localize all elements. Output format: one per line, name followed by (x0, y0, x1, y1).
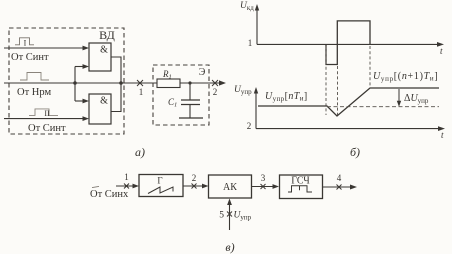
dashed box ВД (pulse discriminator block a) (9, 28, 124, 134)
pulse symbol Нрм (20, 73, 49, 81)
svg-text:1: 1 (139, 87, 144, 97)
svg-text:в): в) (225, 240, 234, 254)
axis X t (plot b top) (248, 38, 444, 56)
svg-text:АК: АК (223, 182, 237, 193)
junction gate outputs (119, 81, 123, 85)
svg-text:2: 2 (213, 87, 218, 97)
svg-text:От Нрм: От Нрм (17, 87, 51, 98)
axis Y U_upr (plot b bottom) (234, 85, 258, 129)
svg-text:2: 2 (247, 121, 252, 131)
waveform U_kd (326, 21, 370, 65)
capacitor C1 (181, 100, 200, 118)
axis Y U_kd (plot b top) (240, 1, 259, 44)
node 1 (137, 80, 143, 97)
svg-text:Uупр[nTи]: Uупр[nTи] (265, 91, 308, 103)
AND gate 1 (&) (89, 43, 111, 71)
svg-text:R1: R1 (162, 69, 172, 81)
wire 5 control input (219, 199, 232, 231)
svg-text:ГСЧ: ГСЧ (291, 176, 310, 187)
dashed level line (327, 106, 439, 108)
wire branch vertical (74, 67, 76, 102)
waveform U_upr (258, 88, 439, 116)
svg-text:Г: Г (157, 176, 162, 186)
pulse symbol II (29, 109, 58, 118)
svg-text:3: 3 (261, 173, 266, 183)
svg-text:II: II (44, 109, 50, 118)
node 2 with output arrow (212, 80, 226, 97)
wire input 1 (116, 172, 139, 189)
svg-text:б): б) (350, 145, 360, 159)
block Г (sawtooth generator) (139, 175, 183, 197)
wire branch to gate2 upper input (75, 99, 89, 104)
svg-text:t: t (440, 46, 443, 56)
junction on Нрм wire (73, 81, 77, 85)
delta U arrow (397, 89, 401, 107)
ground bar (179, 117, 203, 119)
wire input Нрм (middle) (4, 82, 218, 84)
svg-text:1: 1 (248, 38, 253, 48)
svg-text:Uупр: Uупр (234, 85, 252, 96)
wire input I (top) (4, 46, 89, 51)
dashed projection line x=370 (369, 46, 371, 87)
svg-text:Э: Э (199, 67, 206, 78)
svg-text:От Синт: От Синт (11, 52, 49, 63)
wire to capacitor (189, 83, 191, 100)
axis X t (plot b bottom) (247, 121, 445, 140)
svg-text:От Синт: От Синт (28, 123, 66, 134)
svg-text:ВД: ВД (99, 28, 115, 42)
svg-text:5: 5 (219, 211, 224, 221)
block ГСЧ (pulse generator) (280, 175, 323, 199)
junction after R1 (188, 81, 191, 84)
AND gate 2 (&) (89, 94, 111, 124)
wire 2 (183, 173, 209, 189)
wire branch to gate1 lower input (75, 64, 89, 69)
wire 4 output (323, 173, 358, 190)
dashed projection line x=337.5 (337, 66, 339, 115)
svg-text:C1: C1 (168, 97, 177, 109)
wire 3 (252, 173, 280, 189)
svg-text:1: 1 (124, 172, 129, 182)
wire input II (bottom) (4, 116, 89, 121)
svg-text:Uупр[(n+1)Tи]: Uупр[(n+1)Tи] (373, 71, 438, 83)
svg-text:2: 2 (192, 173, 197, 183)
svg-text:I: I (24, 38, 27, 47)
svg-text:&: & (100, 45, 108, 56)
svg-text:Uкд: Uкд (240, 1, 254, 12)
dashed projection line x=326 (325, 46, 327, 115)
svg-text:От Синх: От Синх (90, 189, 129, 200)
svg-text:&: & (100, 96, 108, 107)
block АК (amplitude corrector) (209, 175, 252, 198)
dashed box Э (smoothing filter) (153, 65, 209, 125)
svg-text:Uупр: Uупр (234, 211, 252, 222)
wire gate2 output (111, 83, 121, 112)
svg-text:а): а) (135, 145, 145, 159)
svg-text:ΔUупр: ΔUупр (404, 93, 429, 105)
pulse symbol I (15, 38, 34, 48)
svg-text:t: t (441, 130, 444, 140)
wire gate1 output (111, 57, 121, 83)
svg-text:4: 4 (337, 173, 342, 183)
resistor R1 (157, 79, 180, 88)
